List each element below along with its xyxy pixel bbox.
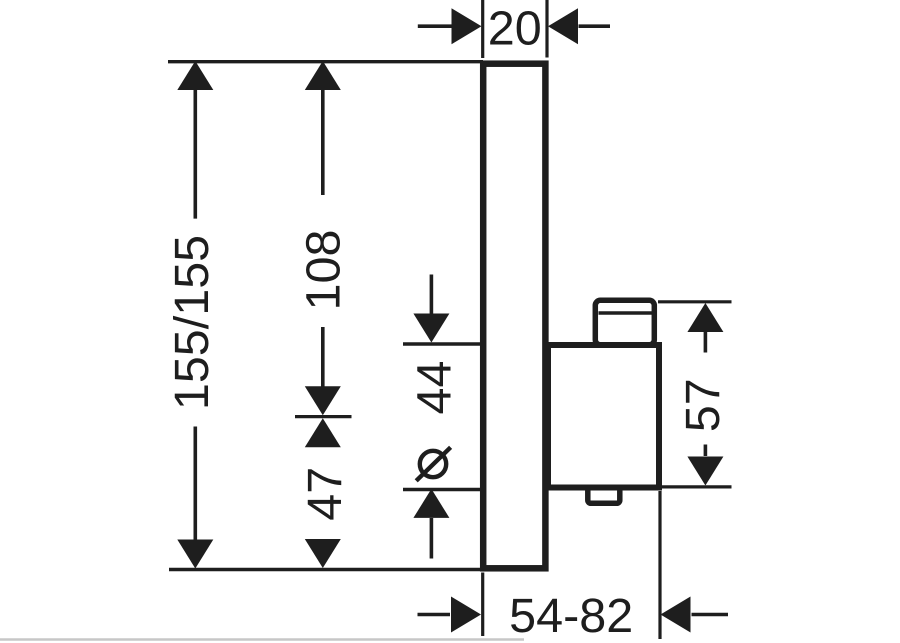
dim 20 right extension line — [545, 0, 548, 58]
dim 57 top extension line — [658, 300, 732, 303]
dim 155/155 top arrow — [177, 61, 213, 90]
dim 57 bottom extension line — [662, 485, 732, 488]
dim 44 bottom arrow — [413, 489, 449, 518]
escutcheon plate — [483, 64, 545, 569]
baseline artifact grey line bottom — [0, 638, 524, 641]
svg-text:47: 47 — [298, 467, 352, 521]
svg-text:57: 57 — [676, 378, 730, 432]
svg-text:155/155: 155/155 — [165, 235, 219, 410]
dim 44 top arrow — [430, 275, 434, 314]
svg-text:44: 44 — [407, 361, 461, 415]
tick 44 top — [403, 342, 480, 345]
handle cap lip line — [599, 311, 655, 315]
dim 54-82 left arrow — [418, 613, 451, 617]
svg-text:54-82: 54-82 — [509, 589, 633, 643]
dim 54-82 right arrow — [692, 613, 729, 617]
tick 44 bottom — [403, 488, 480, 491]
tick 108/47 junction — [295, 415, 352, 418]
dim 155/155 bottom arrow — [194, 427, 198, 541]
dim 108 top arrow — [305, 61, 341, 90]
svg-text:20: 20 — [488, 1, 542, 55]
dim 20 right arrow — [579, 24, 611, 28]
handle cap — [595, 300, 654, 345]
diameter symbol slash — [416, 447, 450, 481]
dim 47 bottom arrow — [305, 539, 341, 568]
dim 20 left arrow — [418, 24, 452, 28]
dim 108 bottom arrow — [321, 327, 325, 387]
diameter symbol circle — [420, 451, 446, 477]
dim 47 top arrow — [305, 418, 341, 447]
dim 54-82 right extension line — [658, 491, 661, 639]
svg-text:108: 108 — [297, 230, 351, 311]
dim 57 bottom arrow — [704, 445, 708, 457]
dim 57 top arrow — [687, 303, 723, 332]
top extension line (155/108 datum) — [168, 60, 483, 63]
dim 20 left extension line — [481, 0, 484, 58]
bottom baseline (155/47 datum) — [169, 568, 483, 571]
dim 54-82 left extension line — [481, 573, 484, 637]
handle bottom tab — [588, 481, 620, 504]
handle body — [548, 345, 659, 488]
